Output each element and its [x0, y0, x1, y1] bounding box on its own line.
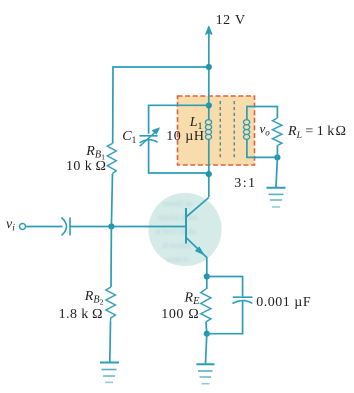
- wire emitter ground: [206, 334, 207, 364]
- wire cap to base: [70, 226, 186, 228]
- node J2 top of primary: [206, 102, 212, 108]
- node base junction: [108, 223, 114, 229]
- wire top horizontal to RB1: [113, 67, 209, 143]
- wire RL bottom to ground: [276, 146, 278, 158]
- wire C1 loop bottom: [149, 140, 209, 173]
- svg-text:10 k Ω: 10 k Ω: [66, 159, 106, 174]
- svg-text:at bsvl tlsda: at bsvl tlsda: [155, 226, 196, 236]
- ground (RL): [267, 188, 286, 207]
- wire RB2 to ground: [109, 322, 112, 362]
- node J1: [206, 64, 212, 70]
- wire secondary bottom: [247, 139, 278, 157]
- svg-text:mwtfi m: mwtfi m: [163, 198, 192, 208]
- node J6: [204, 331, 210, 337]
- svg-text:0.001 µF: 0.001 µF: [256, 295, 311, 310]
- resistor RB1: [107, 143, 116, 173]
- inductor L1 primary coil: [205, 120, 211, 140]
- node J3 bottom of primary: [206, 171, 212, 177]
- ground (RB2): [100, 363, 119, 383]
- svg-text:1.8 k Ω: 1.8 k Ω: [59, 307, 103, 322]
- node J5: [204, 273, 210, 279]
- wire secondary top to RL: [247, 107, 278, 121]
- emitter arrowhead: [196, 247, 204, 254]
- svg-text:vi: vi: [6, 217, 15, 234]
- bleed-through text in circle: [155, 198, 198, 264]
- svg-text:12 V: 12 V: [216, 13, 246, 28]
- wire emitter down: [206, 257, 208, 289]
- svg-text:wrm b: wrm b: [166, 254, 188, 264]
- capacitor 0.001uF: [233, 296, 253, 298]
- svg-text:100 Ω: 100 Ω: [161, 307, 199, 322]
- wire RB1 bottom to base node: [111, 174, 112, 227]
- svg-text:C1: C1: [122, 129, 136, 146]
- variable capacitor C1: [140, 135, 158, 137]
- transformer core dashed lines: [219, 101, 221, 159]
- svg-text:3:1: 3:1: [234, 176, 256, 191]
- inductor secondary coil: [244, 120, 250, 140]
- svg-text:RL = 1 k Ω: RL = 1 k Ω: [287, 124, 346, 141]
- wire base node down to RB2: [110, 227, 112, 288]
- wire C1 loop top: [149, 105, 209, 134]
- base bar: [185, 208, 187, 244]
- svg-text:RE: RE: [184, 290, 201, 307]
- resistor RB2: [106, 287, 116, 322]
- svg-text:msrlsi if rm: msrlsi if rm: [158, 212, 198, 222]
- svg-text:vo: vo: [260, 121, 271, 138]
- svg-text:RB2: RB2: [84, 289, 104, 307]
- wire vi to coupling cap: [26, 226, 63, 228]
- resistor RE: [201, 289, 211, 322]
- bypass capacitor branch: [207, 277, 243, 297]
- coupling capacitor: [62, 218, 67, 236]
- 12V arrowhead: [206, 26, 212, 34]
- emitter lead: [186, 238, 207, 258]
- svg-text:10 µH: 10 µH: [166, 129, 204, 144]
- ground (RE): [196, 364, 214, 383]
- wire RE bottom: [205, 322, 208, 334]
- transistor Q1: [186, 198, 209, 258]
- wire 12V supply vertical: [208, 27, 210, 120]
- collector lead: [186, 198, 209, 217]
- transformer shaded box: [178, 96, 255, 165]
- resistor RL: [272, 118, 282, 146]
- node J7 RL bottom: [274, 154, 280, 160]
- transistor highlight circle: [148, 193, 221, 266]
